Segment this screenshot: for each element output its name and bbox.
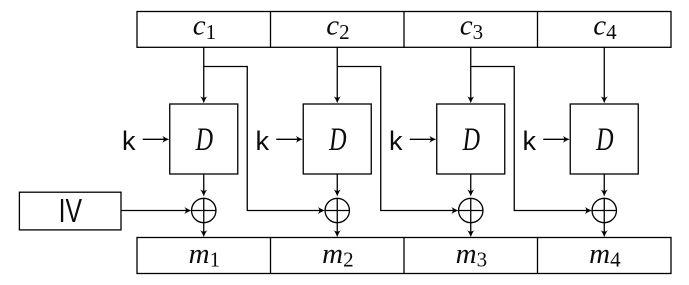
decryption box D3 [437, 104, 505, 174]
arrowhead into xor3 [467, 189, 474, 196]
arrowhead IV into xor1 [184, 207, 191, 214]
wire D3 to xor3 [470, 174, 472, 191]
arrowhead into m3 [467, 230, 474, 237]
svg-text:D: D [595, 122, 613, 158]
arrowhead into D4 [601, 96, 608, 103]
chain wire c3 to xor4 [471, 67, 590, 211]
decryption box D4 [570, 104, 638, 174]
IV box [19, 192, 121, 230]
arrowhead into m4 [601, 230, 608, 237]
wire xor4 to m4 [603, 223, 605, 234]
svg-text:k: k [389, 126, 403, 156]
arrowhead into D1 [200, 96, 207, 103]
xor1 circle [192, 198, 216, 222]
wire c4 drop [603, 47, 605, 100]
svg-text:k: k [122, 126, 136, 156]
divider m3|m4 [537, 238, 539, 274]
arrowhead into m1 [200, 230, 207, 237]
wire xor2 to m2 [336, 223, 338, 234]
divider m1|m2 [270, 238, 272, 274]
xor2 cross horizontal [325, 210, 349, 212]
xor3 cross vertical [470, 198, 472, 222]
xor1 cross vertical [203, 198, 205, 222]
arrowhead into D3 [467, 96, 474, 103]
arrowhead into xor2 [334, 189, 341, 196]
message row box [137, 238, 671, 274]
wire xor1 to m1 [203, 223, 205, 234]
svg-text:D: D [328, 122, 346, 158]
arrowhead into xor4 [601, 189, 608, 196]
xor4 cross horizontal [592, 210, 616, 212]
xor1 cross horizontal [192, 210, 216, 212]
wire D1 to xor1 [203, 174, 205, 191]
svg-text:D: D [195, 122, 213, 158]
xor4 cross vertical [603, 198, 605, 222]
wire D2 to xor2 [336, 174, 338, 191]
xor3 circle [459, 198, 483, 222]
arrowhead chain into xor4 [585, 207, 592, 214]
xor4 circle [592, 198, 616, 222]
arrowhead into D2 [334, 96, 341, 103]
decryption box D2 [303, 104, 371, 174]
IV arrow to xor1 [121, 210, 189, 212]
wire c3 drop [470, 47, 472, 100]
arrowhead into xor1 [200, 189, 207, 196]
k3 arrow [410, 138, 434, 140]
arrowhead chain into xor3 [451, 207, 458, 214]
wire D4 to xor4 [603, 174, 605, 191]
wire xor3 to m3 [470, 223, 472, 234]
xor3 cross horizontal [459, 210, 483, 212]
xor2 circle [325, 198, 349, 222]
svg-text:k: k [523, 126, 537, 156]
decryption box D1 [170, 104, 238, 174]
svg-text:IV: IV [59, 193, 83, 230]
chain wire c1 to xor2 [204, 67, 323, 211]
divider c2|c3 [403, 12, 405, 48]
arrowhead chain into xor2 [318, 207, 325, 214]
svg-text:k: k [256, 126, 270, 156]
divider m2|m3 [403, 238, 405, 274]
chain wire c2 to xor3 [337, 67, 456, 211]
wire c2 drop [336, 47, 338, 100]
svg-text:D: D [462, 122, 480, 158]
wire c1 drop [203, 47, 205, 100]
ciphertext row box [137, 12, 671, 48]
arrowhead into m2 [334, 230, 341, 237]
k1 arrow [143, 138, 167, 140]
k4 arrow [543, 138, 567, 140]
divider c3|c4 [537, 12, 539, 48]
divider c1|c2 [270, 12, 272, 48]
k2 arrow [276, 138, 300, 140]
xor2 cross vertical [336, 198, 338, 222]
